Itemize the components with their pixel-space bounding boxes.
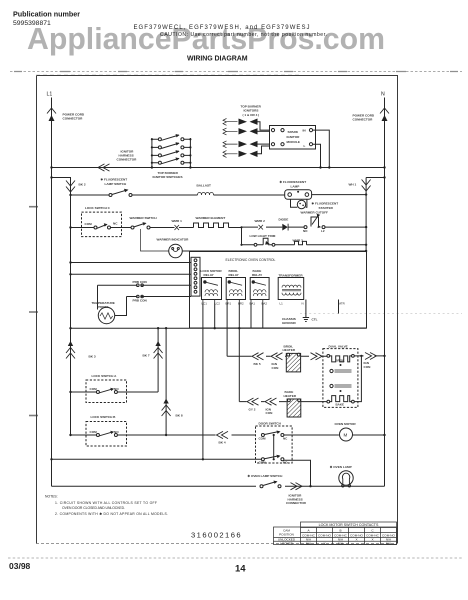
node junction lamp return [365,193,367,195]
svg-text:PROBE: PROBE [98,305,109,309]
svg-text:WH 1: WH 1 [349,183,357,187]
warmer cutoff [301,210,329,233]
node junction L1 branch [50,176,52,178]
svg-text:NC: NC [283,436,288,440]
svg-text:RELAY: RELAY [204,273,215,277]
svg-text:14: 14 [235,564,246,575]
svg-text:WMR 1: WMR 1 [172,219,183,223]
broil relay [226,269,245,303]
svg-text:BK 5: BK 5 [254,362,261,366]
node junction trim line right [365,244,367,246]
fluorescent lamp [280,180,312,199]
svg-text:DOOR SWITCH: DOOR SWITCH [259,422,282,426]
wire module L terminal to feed line [313,144,321,167]
node junction N feed [383,166,385,168]
svg-text:WIRING DIAGRAM: WIRING DIAGRAM [187,56,248,63]
svg-text:OVEN MOTOR: OVEN MOTOR [335,422,357,426]
door switch row 2 [259,455,289,465]
svg-text:RELAY: RELAY [229,273,240,277]
connector PRB CON 1 [133,280,148,287]
svg-text:NO: NO [283,461,288,465]
low light trim [250,234,276,246]
dual valve box [323,345,358,408]
oven lamp [330,465,353,487]
bake heater [284,390,301,417]
svg-text:LAMP: LAMP [291,185,300,189]
svg-text:✱ OVEN LAMP SWITCH: ✱ OVEN LAMP SWITCH [248,474,284,478]
wire feed to strip upper [71,262,192,264]
node junction N 177 [383,176,385,178]
node junction module L feed [319,166,321,168]
node junction broil N [383,355,385,357]
svg-text:OVEN DOOR CLOSED AND UNLOCKED.: OVEN DOOR CLOSED AND UNLOCKED. [62,506,125,510]
broil heater [283,344,301,372]
node junction LC2 bus [214,327,216,329]
wire bake valve return [354,356,361,402]
svg-text:COM: COM [90,430,98,434]
svg-text:CONNECTOR: CONNECTOR [117,158,138,162]
wire L1 rail [51,98,53,487]
notes block [45,495,168,517]
svg-text:CON: CON [266,411,274,415]
svg-text:PRB CON: PRB CON [133,280,148,284]
svg-text:✱ FLUORESCENT: ✱ FLUORESCENT [280,180,307,184]
svg-text:CTL: CTL [312,318,318,322]
wire starter branch down [365,178,367,252]
wire LSA to BK7 vertical [157,328,159,392]
svg-text:LOCK SWITCH B: LOCK SWITCH B [91,415,117,419]
node junction branch split [69,194,71,196]
svg-text:03/98: 03/98 [9,561,31,571]
lock switch C [82,206,122,237]
broil valve actuator [330,369,352,372]
wire broil line [227,355,327,357]
svg-text:5995398871: 5995398871 [13,20,51,27]
lock motor switch contacts table [274,522,397,545]
svg-text:COM: COM [259,436,267,440]
wire BR2 drop [238,303,240,402]
wire lamp to starter U [291,199,307,207]
bake valve actuator [330,384,352,387]
svg-text:X: X [323,541,325,545]
svg-text:RELAY: RELAY [252,273,263,277]
oven motor [335,422,386,441]
svg-text:NC: NC [113,222,118,226]
wire bottom rail [52,485,385,487]
svg-text:COM: COM [259,461,267,465]
wire N rail [384,98,386,487]
top burner ignitor switches bank [151,134,192,179]
svg-text:BK 3: BK 3 [89,355,96,359]
top dotted separator [10,71,462,73]
svg-text:LOCK SWITCH C: LOCK SWITCH C [85,206,111,210]
broil valve coil [327,355,354,367]
door switch row 1 [259,431,339,441]
svg-text:GROUND: GROUND [282,321,297,325]
warmer indicator [157,238,368,258]
node junction feed strip [69,273,71,275]
connector GY2 [247,398,259,411]
wire L1 branch to BK2 [52,178,71,196]
svg-text:PRB CON: PRB CON [133,298,148,302]
node junction door tie bottom [273,458,275,460]
svg-text:BK 7: BK 7 [143,354,150,358]
svg-text:HEATER: HEATER [284,394,297,398]
connector WMR1 [172,219,183,230]
node junction lock C feed [69,226,71,228]
fluorescent lamp switch [101,178,133,197]
wire LC2 drop [214,303,216,329]
connector BK4 [217,431,229,444]
svg-text:N: N [381,92,385,98]
svg-text:CON: CON [364,365,372,369]
node junction module feed [328,166,330,168]
svg-text:1. CIRCUIT SHOWN WITH ALL CON: 1. CIRCUIT SHOWN WITH ALL CONTROLS SET T… [55,501,157,505]
svg-text:A: A [307,529,310,533]
connector BK3 on left vertical [66,341,96,359]
svg-text:Publication number: Publication number [13,10,80,19]
svg-text:NO: NO [303,229,308,233]
svg-text:BROIL: BROIL [336,359,346,363]
svg-text:MTR: MTR [339,302,345,306]
svg-text:HEATER: HEATER [283,348,296,352]
svg-text:BR1: BR1 [226,302,232,306]
ballast coil [197,184,214,196]
wire left secondary vertical [70,195,72,435]
svg-text:WARMER CUTOFF: WARMER CUTOFF [301,210,329,214]
electronic oven control box [190,252,367,329]
svg-text:GY 2: GY 2 [249,407,256,411]
svg-text:X: X [355,538,357,542]
svg-text:BK 2: BK 2 [79,183,86,187]
svg-text:EGF379WECL, EGF379WESH, and EG: EGF379WECL, EGF379WESH, and EGF379WESJ [134,25,310,31]
node junction L1 row2 [50,458,52,460]
svg-text:WARMER INDICATOR: WARMER INDICATOR [157,238,190,242]
svg-text:BA1: BA1 [250,302,256,306]
oven lamp switch [248,474,284,488]
connector power cord L1 [47,108,85,121]
svg-text:WMR 3: WMR 3 [293,239,304,243]
svg-text:BAKE: BAKE [336,402,345,406]
svg-text:2. COMPONENTS WITH ✱ DO NOT A: 2. COMPONENTS WITH ✱ DO NOT APPEAR ON AL… [55,512,168,516]
node junction row2 rail [309,485,311,487]
svg-text:✱ FLUORESCENT: ✱ FLUORESCENT [312,202,339,206]
connector BK2 on branch [66,181,86,193]
svg-text:BK 8: BK 8 [176,414,183,418]
wire probe line 1 [98,284,192,286]
wire fluorescent lamp switch line [71,194,285,196]
svg-text:WMR 2: WMR 2 [255,219,266,223]
wire door internal tie [273,435,275,459]
node junction LC1 row2 [202,458,204,460]
svg-text:CON: CON [272,366,280,370]
wire lock switch A line [71,391,159,393]
lock motor relay [201,269,223,303]
svg-text:IGNITORS: IGNITORS [244,109,259,113]
top burner ignitors label [241,105,262,118]
node junction BK8 bottom [165,434,167,436]
warmer element [194,216,229,228]
door switch box [256,422,293,464]
connector ignitor harness on feed line [98,150,137,172]
relay terminal labels [202,302,345,306]
connector BK8 [162,399,183,418]
svg-text:M: M [344,433,348,438]
node junction BK7 bus [157,327,159,329]
svg-text:NOTES:: NOTES: [45,495,58,499]
svg-text:LOCK SWITCH A: LOCK SWITCH A [92,374,118,378]
svg-text:C: C [371,529,374,533]
lock switch B [86,415,127,446]
node junction feed strip upper [69,261,71,263]
wire low light trim line [242,244,367,246]
wire bake line [239,401,327,403]
fluorescent starter [297,200,338,210]
svg-text:TRANSFORMER: TRANSFORMER [279,274,304,278]
svg-text:DUAL VALVE: DUAL VALVE [329,345,348,349]
node junction LSB feed [69,434,71,436]
frame bottom dashed [36,543,397,545]
connector BK5 [252,353,264,366]
svg-text:IN: IN [303,129,307,133]
wire LC1 drop [202,303,204,460]
connector power cord N [353,108,390,122]
wire lamp to WH1 node [312,194,367,196]
connector PRB CON 2 [133,295,148,302]
spark ignitor module [270,126,316,150]
node junction valve out [360,355,362,357]
node junction element corner [240,226,242,228]
svg-text:B: B [339,529,341,533]
svg-text:✱ FLUORESCENT: ✱ FLUORESCENT [101,178,128,182]
node junction BK8 bus [165,327,167,329]
node junction door tie top [273,434,275,436]
svg-text:( 1 & OR 4 ): ( 1 & OR 4 ) [243,113,260,117]
fold line artifact [300,313,462,315]
wire BK8 vertical [165,328,167,435]
wire probe drops [98,285,127,315]
svg-text:CONNECTOR: CONNECTOR [353,118,374,122]
svg-text:X: X [371,538,373,542]
node junction bus left [69,327,71,329]
svg-text:LOCKED: LOCKED [280,541,293,545]
diode [279,218,289,231]
svg-text:CAUTION: Use correct part numb: CAUTION: Use correct part number, not th… [160,32,327,38]
bake valve coil [327,390,354,406]
svg-text:WARMER ELEMENT: WARMER ELEMENT [196,216,226,220]
svg-text:COM: COM [85,222,93,226]
connector ignitor harness on rail [286,483,307,506]
svg-text:IGNITOR SWITCHES: IGNITOR SWITCHES [153,175,183,179]
node junction LSA feed [69,391,71,393]
svg-text:MODULE: MODULE [287,140,300,144]
svg-text:✱ OVEN LAMP: ✱ OVEN LAMP [330,465,352,469]
EOC terminal strip [191,257,200,296]
svg-text:COM: COM [90,387,98,391]
node junction BA bus [238,327,240,329]
wire warmer line [71,226,367,228]
node junction warmer line right [365,226,367,228]
chassis ground [282,300,318,326]
bottom dotted separator [8,557,462,559]
connector BK7 [143,341,163,359]
wire ignitor feed line [52,167,385,169]
wire module IN to N [313,130,330,167]
transformer [278,274,304,300]
connector broil to valve [311,353,323,360]
lock switch A [86,374,127,403]
wire row2 out [284,460,311,486]
svg-text:DIODE: DIODE [279,218,289,222]
svg-text:BALLAST: BALLAST [197,184,212,188]
WMR2 element [293,239,307,245]
svg-text:CONNECTOR: CONNECTOR [63,117,84,121]
warmer switch [130,216,169,251]
connector IGN CON broil right [364,353,377,369]
wire lock motor bus line D [71,327,367,329]
svg-text:L1: L1 [280,302,284,306]
svg-text:SPARK: SPARK [288,130,299,134]
svg-text:LOCK MOTOR SWITCH CONTACTS: LOCK MOTOR SWITCH CONTACTS [319,523,379,527]
svg-text:BK 4: BK 4 [219,441,226,445]
wire broil valve out to N [354,355,384,357]
svg-text:ELECTRONIC OVEN CONTROL: ELECTRONIC OVEN CONTROL [226,258,276,262]
connector IGN CON bake [265,398,277,415]
diagram outer frame [37,76,398,544]
wire BA drops [251,303,263,329]
connector WMR2 splice [255,219,266,230]
wire probe line 2 [127,296,192,298]
wire element corner down [241,227,243,245]
svg-text:N: N [302,302,304,306]
svg-text:LC1: LC1 [202,302,208,306]
wire lock switch B line [71,434,256,436]
page edge marks [29,206,38,208]
wire BR drop [226,303,228,357]
svg-text:LC2: LC2 [215,302,221,306]
connector WH1 [349,180,371,192]
wire MTR drop [338,300,340,314]
svg-text:L2: L2 [321,229,325,233]
temperature probe [92,301,115,324]
connector IGN CON broil left [271,353,283,370]
bake relay [250,269,269,303]
wire feed to strip [71,273,192,275]
wire N to WH1 chevron [366,177,384,179]
svg-text:L: L [304,144,306,148]
svg-text:POSITION: POSITION [279,533,294,537]
svg-text:L1: L1 [47,92,53,98]
node junction trim line left [240,244,242,246]
top burner ignitor spark gaps [223,119,270,158]
node junction L1 feed [50,166,52,168]
wire row2 feed line [52,458,262,460]
svg-text:IGNITOR: IGNITOR [287,135,301,139]
svg-text:316002166: 316002166 [191,531,242,540]
svg-text:WARMER SWITCH: WARMER SWITCH [130,216,158,220]
svg-text:LAMP SWITCH: LAMP SWITCH [105,182,128,186]
svg-text:CONNECTOR: CONNECTOR [286,501,307,505]
svg-text:LOW LIGHT TRIM: LOW LIGHT TRIM [250,234,276,238]
svg-text:COM-NO: COM-NO [318,534,331,538]
